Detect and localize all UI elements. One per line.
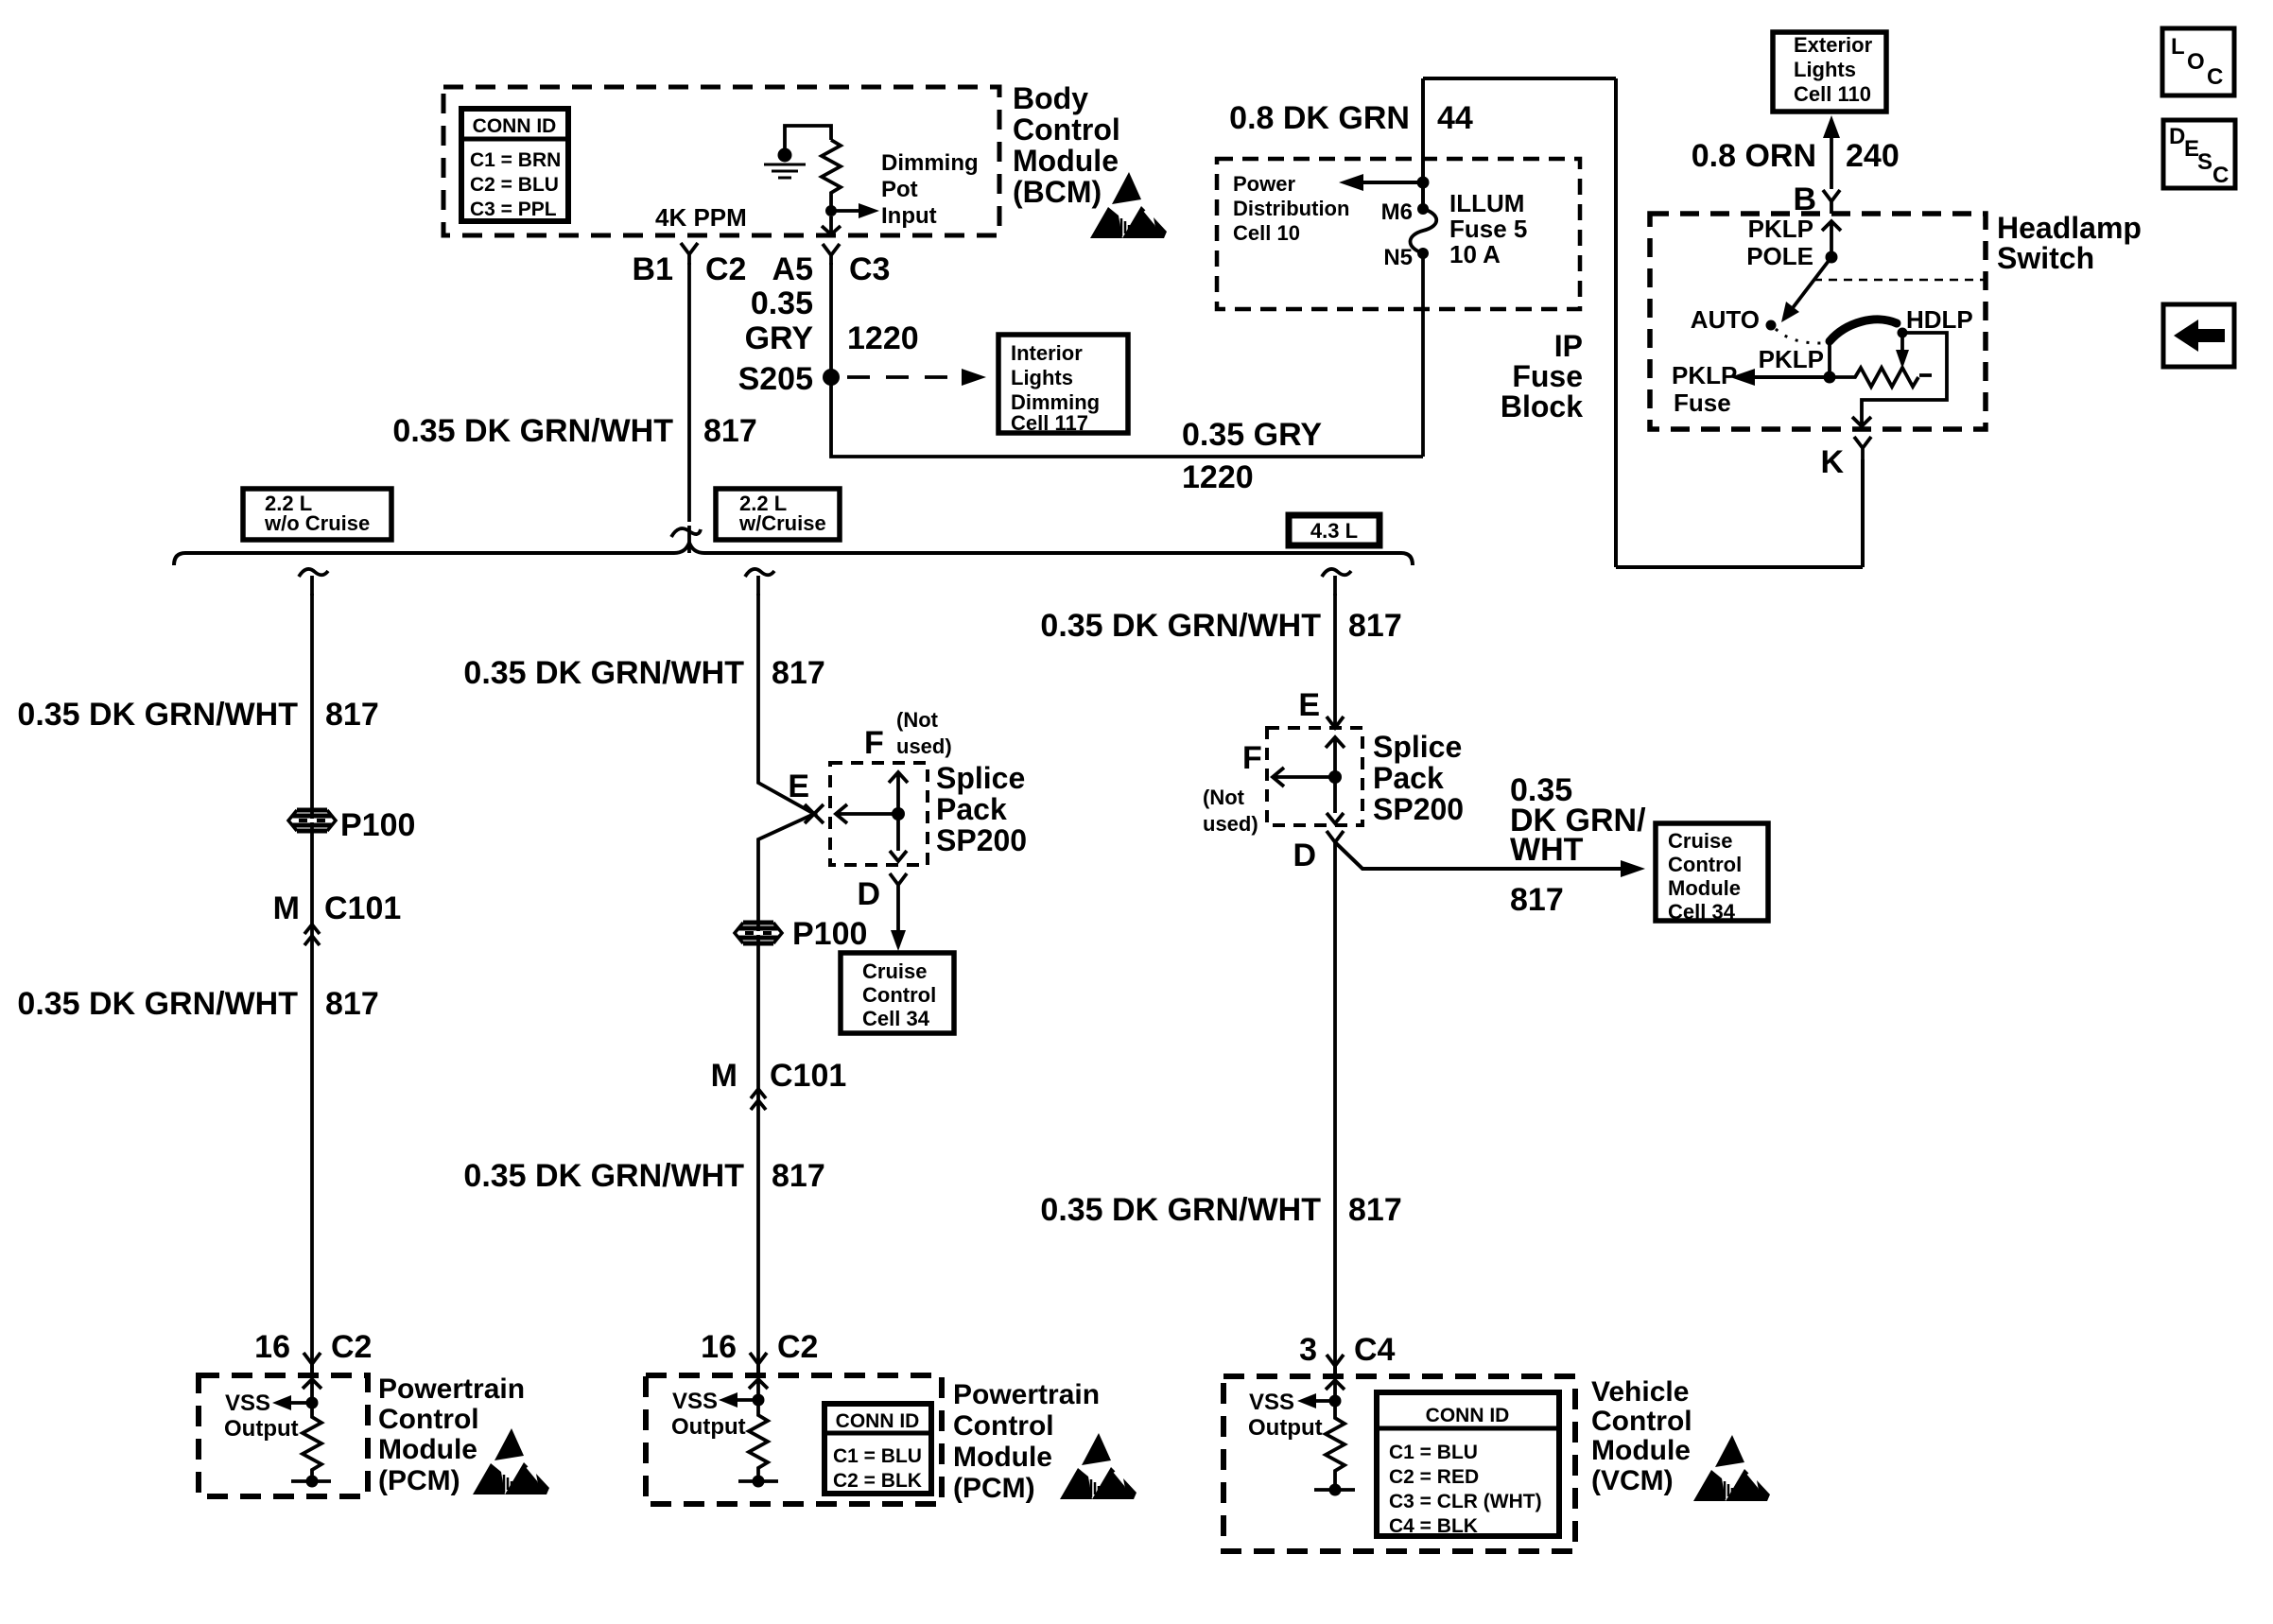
ESD symbol (VCM) xyxy=(1693,1435,1771,1501)
pin entry arrow (PCM 1) xyxy=(303,1379,321,1403)
svg-text:C2 = RED: C2 = RED xyxy=(1389,1466,1479,1488)
svg-text:Cell 34: Cell 34 xyxy=(1668,900,1736,924)
wire POLE with up arrow xyxy=(1822,221,1841,257)
svg-text:C2 = BLU: C2 = BLU xyxy=(470,174,559,196)
svg-text:817: 817 xyxy=(1348,608,1402,644)
svg-text:0.8 ORN: 0.8 ORN xyxy=(1692,138,1816,174)
connector C101 chevrons (branch 2) xyxy=(751,1089,766,1110)
module box PCM 2 (dashed) xyxy=(646,1375,942,1504)
DESC box xyxy=(2163,120,2235,188)
svg-text:L: L xyxy=(2171,34,2185,60)
connector 3/C4 (Y symbol, VCM) xyxy=(1327,1355,1344,1373)
module box BCM (dashed) xyxy=(443,87,999,235)
resistor (rheostat) xyxy=(1831,368,1932,387)
svg-text:C4 = BLK: C4 = BLK xyxy=(1389,1515,1478,1537)
svg-text:CONN ID: CONN ID xyxy=(473,115,557,137)
svg-text:817: 817 xyxy=(1510,882,1564,918)
resistor VSS (PCM 2) xyxy=(749,1400,768,1481)
svg-text:0.35 DK GRN/WHT: 0.35 DK GRN/WHT xyxy=(463,1158,744,1194)
svg-text:Pack: Pack xyxy=(936,792,1007,826)
svg-text:D: D xyxy=(857,876,880,912)
box Cruise Control Module Cell 34 xyxy=(1656,823,1768,921)
wire arrow to Dimming Pot Input xyxy=(831,209,862,213)
svg-text:w/o Cruise: w/o Cruise xyxy=(264,511,370,535)
svg-text:817: 817 xyxy=(325,986,379,1022)
switch lever (thick arc) xyxy=(1830,320,1897,341)
connector E (Y symbol, branch 3) xyxy=(1327,717,1344,728)
svg-text:D: D xyxy=(2169,124,2185,149)
svg-text:Output: Output xyxy=(671,1414,746,1440)
wire A5/C3 down and right to fuse block xyxy=(831,263,1423,457)
svg-text:(PCM): (PCM) xyxy=(378,1465,460,1496)
splice up arrow F (branch 2) xyxy=(889,772,908,814)
svg-text:Fuse: Fuse xyxy=(1512,359,1583,393)
svg-text:VSS: VSS xyxy=(672,1389,718,1414)
wire B1 to bus xyxy=(687,263,691,522)
svg-text:AUTO: AUTO xyxy=(1691,305,1760,334)
svg-text:0.35 DK GRN/WHT: 0.35 DK GRN/WHT xyxy=(392,413,673,449)
node junction (dimming pot input) xyxy=(825,205,837,216)
svg-text:D: D xyxy=(1293,838,1316,873)
wire splice arm with chevron (branch 2) xyxy=(836,804,898,823)
svg-text:w/Cruise: w/Cruise xyxy=(738,511,826,535)
wire K riser xyxy=(1861,459,1865,567)
svg-text:Fuse: Fuse xyxy=(1674,389,1731,417)
svg-text:C3: C3 xyxy=(849,251,890,287)
svg-text:C2: C2 xyxy=(777,1329,818,1365)
connector B (Y symbol) xyxy=(1823,190,1840,214)
CONN ID table (PCM 2) xyxy=(824,1404,931,1494)
svg-text:Vehicle: Vehicle xyxy=(1591,1376,1689,1408)
svg-text:Distribution: Distribution xyxy=(1233,197,1349,220)
wire routing bottom horizontal xyxy=(1616,565,1863,569)
wire arrow up to Exterior Lights xyxy=(1830,132,1833,189)
svg-text:Cruise: Cruise xyxy=(1668,829,1732,853)
connector P100 (branch 2) xyxy=(735,923,782,943)
svg-text:Dimming: Dimming xyxy=(881,150,979,176)
svg-text:Switch: Switch xyxy=(1997,241,2094,275)
svg-text:C: C xyxy=(2212,163,2229,188)
connector C101 chevrons (branch 1) xyxy=(304,924,320,945)
arrow into Cruise Control box (branch 2) xyxy=(891,930,906,951)
svg-text:PKLP: PKLP xyxy=(1748,215,1813,243)
svg-text:C101: C101 xyxy=(770,1058,846,1094)
splice S205 node xyxy=(823,369,840,386)
svg-text:Exterior: Exterior xyxy=(1794,33,1873,57)
partition line (dashed thin) xyxy=(1813,279,1984,282)
ESD symbol (PCM 2) xyxy=(1060,1433,1137,1499)
box Interior Lights Dimming Cell 117 xyxy=(998,335,1128,433)
svg-text:0.8 DK GRN: 0.8 DK GRN xyxy=(1229,100,1410,136)
svg-text:44: 44 xyxy=(1437,100,1473,136)
svg-text:SP200: SP200 xyxy=(936,823,1027,857)
wire HDLP routing to K xyxy=(1852,333,1947,426)
module box Headlamp Switch (dashed) xyxy=(1650,214,1986,429)
svg-text:(BCM): (BCM) xyxy=(1013,175,1102,209)
connector A5/C3 (Y symbol) xyxy=(823,244,840,265)
svg-text:Pack: Pack xyxy=(1373,761,1444,795)
ESD symbol (BCM) xyxy=(1090,172,1168,238)
svg-text:P100: P100 xyxy=(792,916,867,952)
node resistor bottom (VCM) xyxy=(1329,1484,1342,1496)
svg-text:817: 817 xyxy=(703,413,757,449)
svg-text:Body: Body xyxy=(1013,81,1088,115)
dashed linkage AUTO to lever xyxy=(1776,329,1823,343)
splice down arrow (branch 3) xyxy=(1327,777,1344,823)
svg-text:F: F xyxy=(1242,740,1262,776)
splice down arrow D (branch 2) xyxy=(890,814,907,861)
svg-text:Output: Output xyxy=(1248,1415,1323,1441)
node resistor bottom (PCM 2) xyxy=(753,1476,765,1488)
svg-text:Control: Control xyxy=(1013,112,1120,147)
svg-text:Cruise: Cruise xyxy=(862,959,927,983)
svg-text:used): used) xyxy=(896,734,952,758)
svg-text:VSS: VSS xyxy=(225,1391,270,1416)
wire arrow to Power Distribution xyxy=(1360,181,1423,184)
svg-text:Splice: Splice xyxy=(936,761,1025,795)
ground (dimming pot) xyxy=(764,148,806,179)
wire (dimming pot top link) xyxy=(785,126,831,148)
svg-text:Lights: Lights xyxy=(1011,366,1073,389)
node VSS junction (PCM 2) xyxy=(753,1394,765,1407)
svg-text:N5: N5 xyxy=(1383,245,1413,270)
svg-text:Module: Module xyxy=(378,1434,477,1465)
svg-text:C1 = BRN: C1 = BRN xyxy=(470,149,561,171)
svg-text:C3 = CLR (WHT): C3 = CLR (WHT) xyxy=(1389,1491,1542,1512)
svg-text:Power: Power xyxy=(1233,172,1295,196)
svg-text:O: O xyxy=(2187,49,2205,75)
svg-text:POLE: POLE xyxy=(1746,242,1813,270)
svg-text:4K PPM: 4K PPM xyxy=(655,203,747,232)
svg-text:Module: Module xyxy=(1013,144,1119,178)
svg-text:0.35 DK GRN/WHT: 0.35 DK GRN/WHT xyxy=(17,986,298,1022)
resistor VSS (PCM 1) xyxy=(303,1403,321,1481)
splice node SP200 (branch 3) xyxy=(1328,770,1342,784)
svg-text:Cell 10: Cell 10 xyxy=(1233,221,1300,245)
svg-text:IP: IP xyxy=(1554,329,1583,363)
wire 44 vertical to fuse M6 xyxy=(1421,78,1425,209)
node VSS junction (VCM) xyxy=(1329,1395,1342,1408)
svg-text:Input: Input xyxy=(881,203,937,229)
node VSS junction (PCM 1) xyxy=(306,1397,319,1409)
wire D to Cruise Control Module xyxy=(1335,842,1628,869)
node AUTO xyxy=(1766,320,1777,331)
svg-text:(Not: (Not xyxy=(1203,786,1245,809)
svg-text:C: C xyxy=(2207,64,2223,90)
wire branch 2 upper with E kink xyxy=(758,594,814,1375)
svg-text:16: 16 xyxy=(701,1329,737,1365)
wire arrow to PKLP Fuse xyxy=(1751,375,1831,379)
node PKLP xyxy=(1824,371,1836,384)
svg-text:B1: B1 xyxy=(633,251,673,287)
svg-text:Control: Control xyxy=(378,1404,479,1435)
wire branch 1 xyxy=(310,594,314,1375)
bus brace xyxy=(174,543,1413,565)
wire branch 3 continues down xyxy=(1333,842,1337,1375)
svg-text:M6: M6 xyxy=(1381,199,1413,225)
svg-text:GRY: GRY xyxy=(745,320,814,356)
splice up arrow E (branch 3) xyxy=(1326,737,1345,777)
connector P100 (branch 1) xyxy=(288,810,336,831)
svg-text:PKLP: PKLP xyxy=(1759,345,1824,373)
svg-text:Cell 117: Cell 117 xyxy=(1011,411,1088,435)
wire break squiggle (B1 wire) xyxy=(671,526,701,553)
svg-text:Powertrain: Powertrain xyxy=(953,1379,1100,1410)
svg-text:Pot: Pot xyxy=(881,177,918,202)
svg-text:(PCM): (PCM) xyxy=(953,1473,1035,1504)
svg-text:Module: Module xyxy=(1591,1435,1691,1466)
box Exterior Lights Cell 110 xyxy=(1773,32,1886,112)
svg-text:used): used) xyxy=(1203,812,1258,836)
svg-text:Cell 34: Cell 34 xyxy=(862,1007,930,1030)
svg-text:CONN ID: CONN ID xyxy=(1426,1405,1510,1426)
wiper arrow (rheostat) xyxy=(1900,333,1904,352)
svg-text:Control: Control xyxy=(953,1410,1054,1442)
wire splice arm with chevron (branch 3) xyxy=(1273,768,1335,786)
wire stub (VCM) xyxy=(1314,1488,1355,1492)
svg-text:Module: Module xyxy=(953,1442,1052,1473)
svg-text:0.35 DK GRN/WHT: 0.35 DK GRN/WHT xyxy=(463,655,744,691)
svg-text:16: 16 xyxy=(254,1329,290,1365)
wire stub (PCM 2) xyxy=(738,1479,778,1483)
svg-text:P100: P100 xyxy=(340,807,415,843)
pin entry arrow (PCM 2) xyxy=(749,1379,768,1400)
branch squiggle (w/o Cruise) xyxy=(299,569,328,596)
svg-text:817: 817 xyxy=(325,697,379,733)
svg-text:817: 817 xyxy=(772,1158,825,1194)
svg-text:M: M xyxy=(273,890,300,926)
svg-text:817: 817 xyxy=(1348,1192,1402,1228)
connector D (Y symbol, branch 3) xyxy=(1327,831,1344,842)
svg-text:Output: Output xyxy=(224,1416,299,1442)
svg-text:C101: C101 xyxy=(324,890,401,926)
connector K (Y symbol) xyxy=(1854,437,1871,459)
wire arrow VSS (PCM 2) xyxy=(732,1398,758,1402)
connector B1/C2 (Y symbol) xyxy=(681,243,698,265)
svg-text:K: K xyxy=(1820,444,1844,480)
svg-text:1220: 1220 xyxy=(1182,459,1254,495)
svg-text:Headlamp: Headlamp xyxy=(1997,211,2142,245)
svg-text:S205: S205 xyxy=(738,361,813,397)
svg-text:Block: Block xyxy=(1501,389,1583,423)
svg-text:(VCM): (VCM) xyxy=(1591,1465,1674,1496)
svg-text:C3 = PPL: C3 = PPL xyxy=(470,199,557,220)
box Cruise Control Cell 34 (branch 2) xyxy=(841,953,954,1033)
branch squiggle (4.3 L) xyxy=(1322,569,1351,596)
svg-text:Interior: Interior xyxy=(1011,341,1083,365)
wire routing right vertical xyxy=(1614,78,1618,567)
switch arm POLE to AUTO (arrow) xyxy=(1792,257,1831,309)
svg-text:4.3 L: 4.3 L xyxy=(1310,519,1358,543)
svg-text:240: 240 xyxy=(1846,138,1900,174)
wire arrow VSS (VCM) xyxy=(1310,1399,1335,1403)
module box VCM (dashed) xyxy=(1223,1376,1575,1551)
svg-text:CONN ID: CONN ID xyxy=(836,1410,920,1432)
dashed arrow to Interior Lights Dimming xyxy=(847,375,966,379)
svg-text:SP200: SP200 xyxy=(1373,792,1464,826)
wire A5 pin exit with down arrow xyxy=(822,216,841,234)
CONN ID table (BCM) xyxy=(461,109,568,221)
node HDLP xyxy=(1898,328,1908,338)
LOC box xyxy=(2162,28,2234,95)
svg-text:0.35 GRY: 0.35 GRY xyxy=(1182,417,1322,453)
connector 16/C2 (Y symbol, PCM 2) xyxy=(750,1353,767,1373)
wire arrow VSS (PCM 1) xyxy=(286,1401,312,1405)
box 4.3 L xyxy=(1289,515,1379,545)
svg-text:S: S xyxy=(2197,149,2212,175)
svg-text:Lights: Lights xyxy=(1794,58,1856,81)
svg-text:C4: C4 xyxy=(1354,1332,1396,1368)
wire N5 down to S205 elbow xyxy=(1421,253,1425,457)
svg-text:10 A: 10 A xyxy=(1449,240,1501,268)
svg-text:C2 = BLK: C2 = BLK xyxy=(833,1470,922,1492)
svg-text:ILLUM: ILLUM xyxy=(1449,189,1524,217)
svg-text:HDLP: HDLP xyxy=(1906,305,1973,334)
connector D (Y symbol, branch 2) xyxy=(890,873,907,934)
svg-text:0.35: 0.35 xyxy=(751,285,813,321)
node POLE xyxy=(1826,251,1838,264)
branch squiggle (w/Cruise) xyxy=(745,569,774,596)
pin entry arrow (VCM) xyxy=(1326,1380,1345,1401)
resistor VSS (VCM) xyxy=(1326,1401,1345,1490)
svg-text:E: E xyxy=(1298,687,1320,723)
connector X at E xyxy=(805,804,824,823)
module box PCM 1 (dashed) xyxy=(199,1375,368,1496)
wire branch 3 upper xyxy=(1333,594,1337,728)
svg-text:M: M xyxy=(711,1058,737,1094)
wire stub (PCM 1) xyxy=(291,1479,331,1483)
node resistor bottom (PCM 1) xyxy=(306,1476,319,1488)
back arrow box xyxy=(2163,304,2234,367)
svg-text:F: F xyxy=(864,725,884,761)
svg-text:A5: A5 xyxy=(772,251,813,287)
fuse element ILLUM Fuse 5 xyxy=(1411,203,1437,259)
svg-text:0.35 DK GRN/WHT: 0.35 DK GRN/WHT xyxy=(1040,608,1321,644)
svg-text:E: E xyxy=(788,769,809,804)
svg-text:0.35 DK GRN/WHT: 0.35 DK GRN/WHT xyxy=(1040,1192,1321,1228)
svg-text:Module: Module xyxy=(1668,876,1741,900)
svg-text:Splice: Splice xyxy=(1373,730,1462,764)
splice pack box SP200 (branch 2, dashed) xyxy=(830,763,928,865)
ESD symbol (PCM 1) xyxy=(473,1428,550,1494)
splice node SP200 (branch 2) xyxy=(892,807,905,821)
resistor (dimming pot) xyxy=(822,140,841,206)
svg-text:Fuse 5: Fuse 5 xyxy=(1449,215,1527,243)
svg-text:Powertrain: Powertrain xyxy=(378,1373,525,1405)
svg-text:C1 = BLU: C1 = BLU xyxy=(1389,1442,1478,1463)
svg-text:Control: Control xyxy=(1591,1406,1692,1437)
fuse block box (dashed) xyxy=(1217,159,1580,309)
box 2.2 L w/o Cruise xyxy=(243,489,391,540)
splice pack box SP200 (branch 3, dashed) xyxy=(1267,728,1362,825)
svg-text:(Not: (Not xyxy=(896,708,939,732)
svg-text:Cell 110: Cell 110 xyxy=(1794,82,1871,106)
svg-text:Control: Control xyxy=(1668,853,1742,876)
svg-text:C2: C2 xyxy=(331,1329,372,1365)
svg-text:Control: Control xyxy=(862,983,936,1007)
svg-text:3: 3 xyxy=(1299,1332,1317,1368)
box 2.2 L w/Cruise xyxy=(716,489,840,540)
svg-text:VSS: VSS xyxy=(1249,1390,1294,1415)
svg-text:817: 817 xyxy=(772,655,825,691)
svg-text:PKLP: PKLP xyxy=(1672,361,1737,389)
svg-text:C1 = BLU: C1 = BLU xyxy=(833,1445,922,1467)
wire routing top horizontal xyxy=(1423,77,1616,80)
svg-text:C2: C2 xyxy=(705,251,746,287)
svg-text:0.35 DK GRN/WHT: 0.35 DK GRN/WHT xyxy=(17,697,298,733)
node on 44 wire xyxy=(1417,177,1430,189)
CONN ID table (VCM) xyxy=(1377,1392,1559,1537)
connector 16/C2 (Y symbol) xyxy=(304,1353,321,1373)
svg-text:WHT: WHT xyxy=(1510,832,1584,868)
wire lever pivot down to PKLP node xyxy=(1828,341,1831,377)
svg-text:1220: 1220 xyxy=(847,320,919,356)
